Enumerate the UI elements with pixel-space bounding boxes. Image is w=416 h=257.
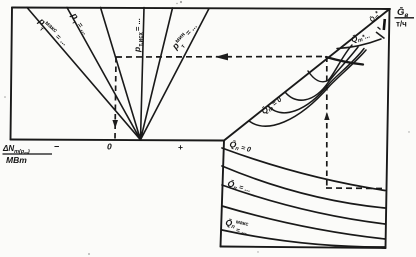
axis fraction dN/MW — [2, 144, 52, 165]
svg-text:= ...: = ... — [133, 18, 142, 31]
frame right edge (G_v axis) — [386, 9, 390, 248]
dashed vertical at 0 with down arrow — [115, 57, 116, 139]
Q_p intermediate line 1 — [222, 166, 385, 208]
dashed horizontal in lower panel — [326, 187, 385, 190]
svg-text:т/ч: т/ч — [396, 20, 407, 29]
Q_t J-curve 1 — [308, 45, 352, 82]
label Q_p = 0 — [228, 139, 252, 156]
Q_t J-curve 3 — [268, 49, 364, 113]
frame left edge — [11, 8, 13, 140]
label p_t_max = ... — [33, 15, 70, 50]
svg-text:−: − — [54, 142, 59, 152]
horizontal axis dN — [11, 140, 225, 141]
down arrowhead — [112, 120, 118, 129]
frame top edge — [12, 8, 390, 10]
arc under Q_t label — [337, 39, 381, 49]
fan origin blob — [136, 133, 145, 141]
left arrowhead on dashed horizontal — [215, 53, 228, 60]
label Q_t = ... on arc — [350, 30, 371, 45]
Q_p intermediate line 2 — [222, 206, 385, 239]
up arrowhead on dashed vertical — [324, 112, 329, 120]
svg-text:р: р — [132, 47, 142, 53]
svg-text:0: 0 — [107, 142, 112, 152]
Q_t J-curve 2 — [285, 47, 358, 100]
dashed vertical at operating point — [326, 57, 328, 189]
panel left edge — [221, 141, 225, 247]
svg-text:+: + — [178, 142, 183, 152]
label Q_p max = ... — [224, 217, 250, 236]
Q_p = 0 line — [222, 148, 385, 191]
diagonal Q_t=0 line — [224, 9, 390, 141]
fan line left 3 — [101, 8, 141, 140]
fan line p_t_isx (vertical) — [141, 8, 145, 140]
lower panel Q_p lines — [222, 148, 385, 247]
Q_p = ... line — [222, 185, 385, 224]
label p_t_isx = ... (vertical) — [132, 18, 145, 53]
label Q_p = ... — [226, 178, 252, 195]
G_v axis fraction label — [395, 7, 415, 29]
svg-text:т.исх: т.исх — [139, 31, 145, 46]
Q_p max line — [222, 230, 385, 247]
corner cluster: small Q label and strokes — [367, 9, 385, 39]
Q_t curve bundle from operating point — [249, 39, 381, 126]
fan line p_t_max — [27, 8, 141, 140]
label p_t_min = ... — [169, 21, 202, 55]
envelope curve thick — [326, 57, 363, 65]
fan line p_t — [67, 8, 141, 140]
dashed horizontal from p_isx line to diagonal — [116, 56, 326, 59]
label p_t = ... — [66, 10, 91, 38]
frame bottom edge — [221, 247, 386, 249]
fan line right 1 — [141, 8, 173, 140]
fan of p_t lines — [27, 8, 209, 140]
svg-text:МВт: МВт — [6, 155, 27, 165]
label Q_t = 0 on diagonal — [260, 95, 285, 117]
Q_t J-curve 4 — [249, 50, 366, 126]
fan line p_t_min — [141, 9, 210, 140]
